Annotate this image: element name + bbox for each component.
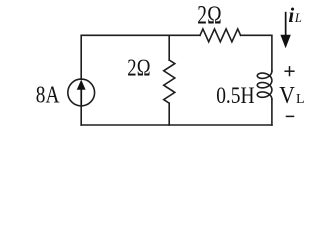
svg-text:8A: 8A <box>36 83 60 109</box>
current arrow iL <box>280 12 290 49</box>
svg-text:L: L <box>296 92 305 107</box>
svg-text:2Ω: 2Ω <box>127 56 151 82</box>
wire right-bottom segment <box>271 99 273 125</box>
svg-text:i: i <box>288 3 294 27</box>
inductor L1 0.5H coil <box>257 71 272 99</box>
wire middle branch top <box>168 35 170 60</box>
svg-text:2Ω: 2Ω <box>197 0 222 29</box>
resistor R2 2ohm (middle vertical) <box>164 60 175 103</box>
current source I1 circle <box>68 79 95 106</box>
svg-text:0.5H: 0.5H <box>216 83 254 109</box>
svg-text:V: V <box>279 83 295 109</box>
resistor R1 2ohm (top horizontal) <box>200 29 241 42</box>
wire top-middle segment <box>169 34 200 36</box>
wire bottom <box>81 124 272 126</box>
wire top-left segment <box>81 35 169 79</box>
label plus <box>284 66 294 76</box>
wire top-right segment <box>241 35 272 71</box>
svg-text:L: L <box>294 11 302 25</box>
label minus <box>286 115 295 117</box>
wire left-bottom segment <box>80 106 82 125</box>
current source I1 arrow <box>77 80 86 105</box>
wire middle branch bottom <box>168 103 170 125</box>
